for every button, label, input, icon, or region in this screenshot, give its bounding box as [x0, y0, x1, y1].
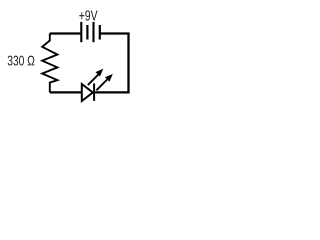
label +9V: [79, 10, 97, 20]
wire top-left segment: [50, 32, 81, 34]
wire top-right, right side, bottom-right to LED cathode: [94, 34, 129, 93]
LED arrow 2 shaft: [96, 80, 107, 91]
LED D1 cathode bar: [93, 83, 95, 101]
wire left side with resistor R1 zigzag: [42, 34, 57, 93]
battery plate long: [92, 22, 94, 42]
label 330 ohm: [8, 56, 35, 66]
battery B1: [81, 22, 100, 42]
LED arrow 1 shaft: [88, 74, 99, 85]
battery plate short: [86, 25, 88, 40]
battery plate long (left, +): [80, 22, 82, 42]
LED arrow 1 head: [96, 69, 102, 75]
LED D1 triangle (anode): [82, 84, 93, 101]
battery plate short (right, -): [99, 25, 101, 40]
LED arrow 2 head: [106, 75, 112, 81]
wire bottom-left (LED anode to left corner): [50, 91, 82, 93]
